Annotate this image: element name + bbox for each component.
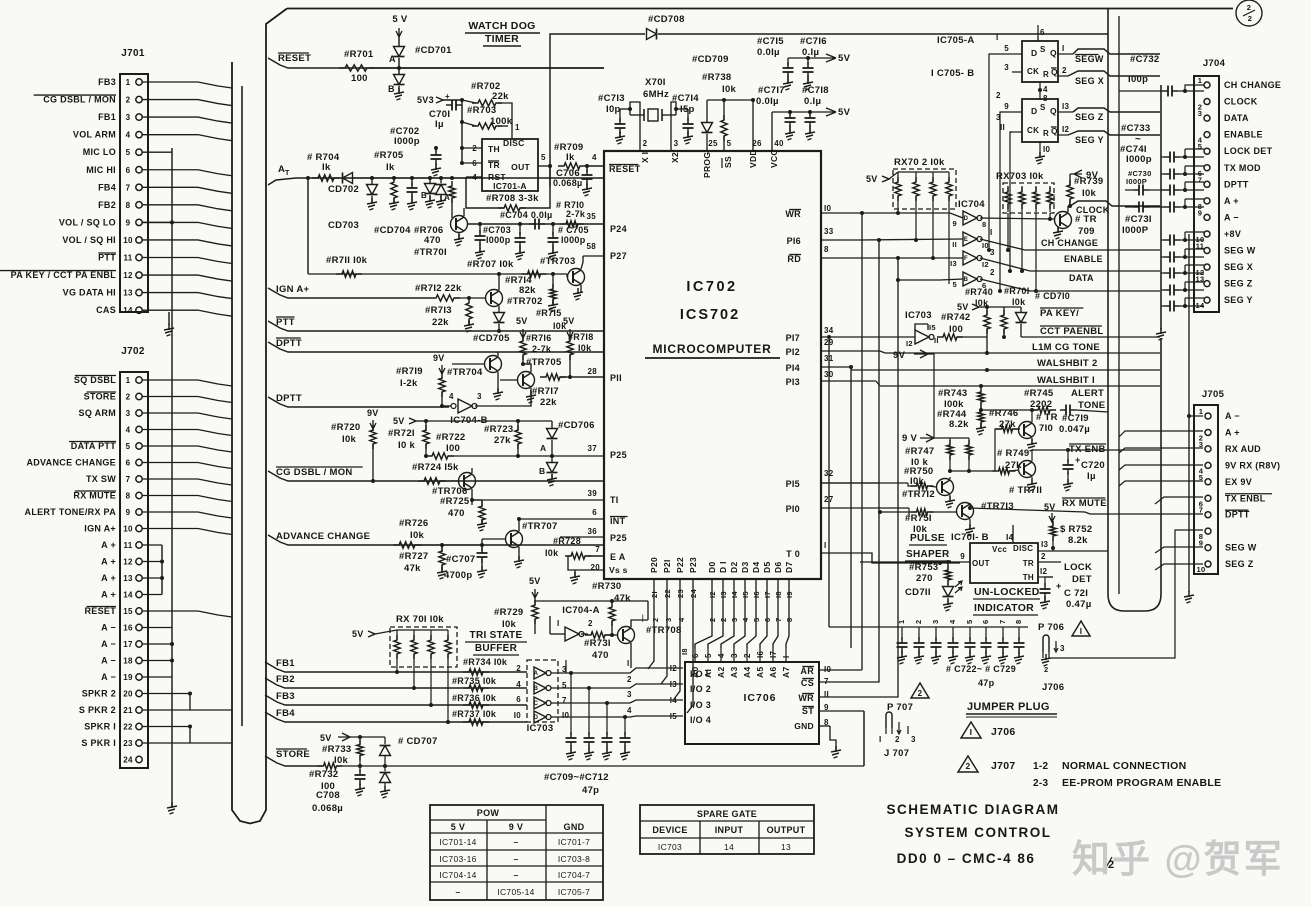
svg-text:5: 5: [1004, 44, 1009, 53]
svg-text:1: 1: [126, 78, 131, 87]
svg-text:A −: A −: [101, 623, 116, 633]
pin VCC: [769, 149, 779, 168]
svg-text:P 706: P 706: [1038, 622, 1064, 633]
svg-text:0.068µ: 0.068µ: [312, 803, 343, 814]
label+wire FB1 net: [265, 658, 527, 674]
svg-text:J706: J706: [1042, 682, 1064, 693]
svg-text:GND: GND: [564, 822, 585, 832]
svg-text:10: 10: [123, 236, 133, 245]
label J706 ref: [991, 726, 1016, 738]
svg-text:J705: J705: [1202, 389, 1225, 400]
svg-text:Ik: Ik: [386, 162, 395, 173]
svg-text:GND: GND: [794, 721, 814, 731]
svg-text:I: I: [1080, 627, 1083, 636]
svg-text:#R73I: #R73I: [584, 638, 611, 649]
svg-text:14: 14: [123, 591, 133, 600]
flag ENABLE: [1064, 254, 1103, 264]
svg-text:F: F: [964, 256, 968, 262]
warning triangle 1a: [1072, 621, 1090, 636]
ground: [167, 802, 177, 814]
svg-text:2: 2: [627, 675, 632, 684]
svg-text:CD702: CD702: [328, 184, 359, 195]
label 9V tr709: [1070, 170, 1099, 181]
pin SS: [722, 156, 733, 168]
svg-text:709: 709: [1078, 226, 1095, 237]
svg-text:A −: A −: [101, 656, 116, 666]
op-amp IC704-B: [440, 390, 531, 426]
capacitor C732 label: [1128, 54, 1160, 85]
svg-text:J 707: J 707: [884, 748, 909, 759]
svg-text:5: 5: [126, 148, 131, 157]
pin ff 3: [1004, 63, 1022, 72]
svg-text:VOL / SQ LO: VOL / SQ LO: [59, 217, 116, 227]
label A −: [101, 639, 116, 649]
pin num 3: [674, 139, 679, 148]
label TRI STATE BUFFER: [465, 630, 527, 655]
svg-text:9V RX (R8V): 9V RX (R8V): [1225, 460, 1280, 470]
capacitor C713: [598, 93, 630, 144]
svg-text:3: 3: [730, 618, 739, 622]
IC IC701-B box: [951, 532, 1038, 583]
svg-text:TRI STATE: TRI STATE: [470, 630, 523, 641]
labels C733 C741: [1120, 123, 1152, 165]
svg-text:I00: I00: [949, 324, 963, 335]
svg-text:A: A: [534, 671, 539, 677]
svg-text:26: 26: [752, 139, 762, 148]
svg-text:SEG X: SEG X: [1075, 76, 1104, 86]
label IC704: [958, 199, 985, 210]
svg-text:0.047µ: 0.047µ: [1059, 424, 1090, 435]
svg-text:X70I: X70I: [645, 77, 666, 88]
svg-text:SPKR 2: SPKR 2: [82, 689, 116, 699]
svg-text:ADVANCE CHANGE: ADVANCE CHANGE: [276, 531, 370, 542]
svg-text:B: B: [539, 466, 545, 476]
svg-text:#C7I3: #C7I3: [598, 93, 625, 104]
pin P12: [786, 338, 885, 357]
svg-text:I3: I3: [1062, 102, 1070, 111]
svg-text:P24: P24: [610, 224, 627, 234]
svg-text:4: 4: [677, 617, 686, 622]
svg-text:9: 9: [1198, 208, 1202, 217]
diode CD705: [473, 313, 510, 345]
svg-text:#R720: #R720: [331, 422, 361, 433]
svg-text:TONE: TONE: [1078, 400, 1105, 411]
svg-text:I00p: I00p: [1128, 74, 1148, 85]
pin IC701-A 6: [460, 159, 482, 168]
pin P16: [787, 227, 860, 246]
svg-text:5V3: 5V3: [417, 95, 434, 105]
resistor R738: [702, 72, 737, 150]
svg-text:I2: I2: [1040, 567, 1048, 576]
wire P24 line: [467, 212, 604, 224]
svg-text:I-2k: I-2k: [400, 378, 418, 389]
svg-text:IC704: IC704: [958, 199, 985, 210]
svg-text:47p: 47p: [978, 678, 995, 688]
svg-text:I0: I0: [1043, 145, 1051, 154]
svg-text:9: 9: [1199, 539, 1203, 548]
wire D0-D7 drop to A0-A7: [695, 604, 789, 648]
pin IO3: [670, 696, 711, 710]
svg-text:X2: X2: [670, 152, 680, 163]
transistor TR709: [1040, 206, 1097, 239]
wire r711 r707: [308, 272, 567, 276]
pin RESET 4: [609, 164, 641, 174]
svg-text:#C7I6: #C7I6: [800, 36, 827, 47]
label+wire FB2 net: [265, 674, 527, 690]
svg-text:I3: I3: [1041, 540, 1049, 549]
wire ptt node: [497, 329, 501, 333]
svg-text:IC704-14: IC704-14: [439, 870, 476, 880]
svg-text:#R739: #R739: [1074, 176, 1104, 187]
svg-text:7: 7: [1199, 506, 1203, 515]
svg-text:AR: AR: [800, 666, 814, 676]
pin P27 entry: [583, 242, 604, 256]
label S PKR I: [81, 738, 116, 748]
svg-text:J706: J706: [991, 726, 1016, 738]
svg-text:SS: SS: [723, 156, 733, 168]
pin J701-7: [126, 183, 232, 193]
svg-text:DET: DET: [1072, 574, 1092, 585]
svg-text:3: 3: [664, 618, 673, 622]
wire ic703 out drops: [547, 660, 566, 688]
svg-text:–: –: [513, 854, 518, 864]
svg-text:#R726: #R726: [399, 518, 429, 529]
svg-text:#C703: #C703: [483, 225, 511, 235]
ground: [394, 88, 404, 100]
svg-text:7: 7: [774, 618, 783, 622]
resistor array RX701: [352, 614, 457, 667]
svg-text:SEG W: SEG W: [1225, 543, 1257, 553]
svg-text:4: 4: [126, 131, 131, 140]
svg-text:IC701-7: IC701-7: [558, 837, 590, 847]
transistor TR712: [902, 477, 955, 508]
svg-text:MIC HI: MIC HI: [86, 165, 116, 175]
svg-text:#R734 I0k: #R734 I0k: [463, 657, 508, 667]
svg-text:18: 18: [123, 657, 133, 666]
svg-text:IC705-14: IC705-14: [497, 887, 534, 897]
svg-text:5V: 5V: [320, 733, 332, 743]
svg-text:SEGW: SEGW: [1075, 54, 1104, 64]
pin EA: [588, 545, 626, 562]
svg-text:P22: P22: [675, 557, 685, 573]
svg-text:1: 1: [897, 620, 906, 624]
svg-text:32: 32: [824, 469, 834, 478]
svg-text:A2: A2: [716, 667, 726, 678]
svg-text:CAS: CAS: [96, 305, 116, 315]
resistor R740: [965, 287, 993, 355]
svg-text:0.47µ: 0.47µ: [1066, 599, 1091, 610]
wire ic706 bus loop: [838, 211, 900, 766]
pin J702-3: [126, 409, 232, 419]
svg-text:C720: C720: [1081, 460, 1105, 471]
capacitor C705: [548, 222, 589, 260]
label JUMPER PLUG: [966, 701, 1057, 717]
svg-text:2-7k: 2-7k: [532, 344, 552, 354]
svg-text:1: 1: [1198, 76, 1202, 85]
svg-text:MIC LO: MIC LO: [83, 147, 116, 157]
IC IC705-A box: [1022, 41, 1058, 82]
svg-text:#C7I4: #C7I4: [672, 93, 699, 104]
pin num 5: [727, 139, 732, 148]
svg-text:C: C: [534, 701, 539, 707]
svg-text:IC703-16: IC703-16: [439, 854, 476, 864]
svg-text:D2: D2: [729, 562, 739, 573]
svg-text:I5: I5: [929, 323, 936, 332]
label IGN A+: [84, 524, 116, 534]
IC IC706 box: [685, 662, 819, 744]
label 5V r721: [393, 416, 426, 426]
svg-text:TX ENBL: TX ENBL: [1225, 493, 1266, 503]
capacitor C708: [312, 766, 366, 814]
svg-text:4700p: 4700p: [444, 570, 472, 581]
pin P25b: [560, 527, 627, 543]
wire 5v3 node: [443, 98, 464, 163]
pin ic701b 2: [1038, 552, 1061, 562]
label page 2: [1104, 857, 1114, 871]
connector J701 label: [121, 48, 145, 59]
svg-text:#R701: #R701: [344, 49, 374, 60]
pin J702-4: [126, 426, 232, 436]
label 9V r719: [433, 353, 445, 374]
svg-text:2: 2: [895, 735, 900, 744]
label A +: [101, 557, 116, 567]
svg-text:ALERT: ALERT: [1071, 388, 1104, 399]
svg-text:#C73I: #C73I: [1125, 214, 1152, 225]
svg-text:OUTPUT: OUTPUT: [767, 825, 806, 835]
svg-text:A0: A0: [690, 667, 700, 678]
svg-text:CK: CK: [1027, 67, 1039, 76]
svg-text:OUT: OUT: [972, 559, 990, 568]
svg-text:22: 22: [123, 723, 133, 732]
svg-text:# R749: # R749: [997, 448, 1029, 459]
svg-text:LOCK DET: LOCK DET: [1224, 146, 1273, 156]
pin ff 13: [1058, 102, 1073, 112]
svg-text:#R723: #R723: [484, 424, 514, 435]
svg-text:#C7I5: #C7I5: [757, 36, 784, 47]
svg-text:TX SW: TX SW: [86, 474, 116, 484]
pin ff 5: [1004, 44, 1022, 54]
svg-text:#TR702: #TR702: [507, 296, 543, 307]
pins IC702 bottom P20-P23 D0-D7: [649, 557, 794, 604]
svg-text:8: 8: [1014, 620, 1023, 624]
pin GND: [794, 718, 830, 731]
svg-text:I2: I2: [1062, 125, 1070, 134]
wire j704 bus rail: [1160, 85, 1162, 330]
svg-text:23: 23: [123, 739, 133, 748]
resistor R737: [452, 709, 497, 725]
pin ff 10: [1035, 142, 1051, 164]
diode CD707: [380, 736, 438, 798]
pin J702-16: [123, 624, 172, 633]
svg-text:CH CHANGE: CH CHANGE: [1041, 238, 1098, 248]
svg-text:I0k: I0k: [410, 530, 425, 541]
label ALERT TONE/RX PA: [25, 507, 117, 517]
svg-text:9 V: 9 V: [509, 822, 523, 832]
svg-text:20: 20: [123, 690, 133, 699]
wire jumper link: [863, 711, 865, 766]
svg-text:RESET: RESET: [278, 53, 311, 64]
pin J701-3: [126, 113, 232, 123]
svg-text:SEG Z: SEG Z: [1224, 279, 1253, 289]
pin J702-19: [123, 673, 172, 682]
label PULSE SHAPER: [905, 533, 951, 561]
svg-text:#R708 3-3k: #R708 3-3k: [486, 193, 539, 204]
svg-text:DPTT: DPTT: [276, 338, 302, 349]
svg-text:58: 58: [587, 242, 597, 251]
svg-text:2: 2: [651, 618, 660, 622]
svg-text:STORE: STORE: [84, 392, 116, 402]
svg-text:# C722~ # C729: # C722~ # C729: [946, 664, 1016, 674]
label SQ ARM: [79, 408, 116, 418]
resistor R716: [520, 333, 552, 366]
capacitor C707: [442, 543, 488, 581]
capacitor C706: [553, 164, 593, 188]
svg-text:7: 7: [998, 620, 1007, 624]
resistor R702: [462, 81, 512, 132]
svg-text:FB2: FB2: [98, 200, 116, 210]
label IC705-B: [931, 68, 974, 79]
pin J702-7: [126, 475, 232, 485]
svg-text:E: E: [964, 237, 968, 243]
svg-text:47k: 47k: [404, 563, 421, 574]
svg-text:II: II: [952, 240, 957, 249]
capacitor C717: [756, 85, 796, 140]
svg-text:7: 7: [126, 475, 131, 484]
svg-text:IC706: IC706: [743, 692, 776, 704]
svg-text:#R728: #R728: [553, 536, 581, 546]
resistor R723: [484, 421, 521, 458]
pin ff 2q: [1058, 66, 1068, 76]
wire A+ rail: [161, 545, 163, 595]
svg-text:SEG Y: SEG Y: [1075, 135, 1104, 145]
svg-text:IC704-7: IC704-7: [558, 870, 590, 880]
diode CD702: [328, 173, 466, 196]
pin X1: [640, 152, 650, 163]
svg-text:21: 21: [123, 706, 133, 715]
svg-text:A +: A +: [101, 540, 116, 550]
svg-text:#TR704: #TR704: [447, 367, 483, 378]
svg-text:0.0Iµ: 0.0Iµ: [756, 96, 779, 107]
resistor R747b: [966, 438, 972, 473]
pin J701-4: [126, 131, 232, 141]
svg-text:2: 2: [990, 268, 995, 277]
svg-text:#R7I6: #R7I6: [526, 333, 552, 343]
svg-text:2: 2: [516, 664, 521, 673]
svg-text:SYSTEM CONTROL: SYSTEM CONTROL: [904, 825, 1051, 840]
flag CLOCK: [1070, 201, 1160, 215]
pin J702-10: [123, 525, 232, 535]
svg-text:9: 9: [960, 552, 965, 561]
svg-text:I000p: I000p: [1126, 154, 1152, 165]
svg-text:4: 4: [516, 680, 521, 689]
svg-text:14: 14: [123, 306, 133, 315]
transistor TR701: [414, 216, 468, 259]
label P706: [1038, 622, 1064, 633]
capacitors C733-C741 bank: [1161, 152, 1204, 312]
capacitor C732: [1119, 85, 1204, 97]
svg-text:I0: I0: [824, 204, 832, 213]
svg-text:IC703: IC703: [527, 723, 554, 734]
svg-text:S: S: [1040, 103, 1046, 112]
svg-text:SQ DSBL: SQ DSBL: [74, 375, 116, 385]
svg-text:ST: ST: [802, 706, 814, 716]
svg-text:Vcc: Vcc: [992, 545, 1007, 554]
svg-text:30: 30: [824, 370, 834, 379]
resistor R728: [545, 536, 604, 570]
svg-text:SQ ARM: SQ ARM: [79, 408, 116, 418]
svg-text:TIMER: TIMER: [485, 33, 519, 45]
svg-text:#R7I8: #R7I8: [568, 332, 594, 342]
svg-text:I0k: I0k: [342, 434, 357, 445]
svg-text:11: 11: [123, 254, 132, 263]
resistor R747: [905, 438, 953, 473]
svg-text:5V: 5V: [563, 316, 575, 326]
svg-text:I000P: I000P: [1126, 177, 1147, 186]
svg-text:RX AUD: RX AUD: [1225, 444, 1261, 454]
svg-text:+: +: [1056, 581, 1062, 591]
pin P25a: [588, 444, 627, 460]
flag SEGZ: [1073, 108, 1160, 122]
wire 5V feed: [396, 28, 402, 46]
resistor R706: [414, 176, 455, 246]
svg-text:22k: 22k: [432, 317, 449, 328]
svg-text:9: 9: [953, 219, 957, 228]
svg-text:3: 3: [1060, 644, 1065, 653]
svg-text:5V: 5V: [393, 416, 405, 426]
diode CD704-A: [436, 176, 451, 208]
resistor R704: [307, 152, 340, 181]
svg-text:RD: RD: [787, 254, 801, 264]
svg-text:D: D: [534, 715, 539, 721]
pin INT: [519, 508, 628, 526]
page border frame: [266, 9, 1233, 451]
wire long bottom1: [337, 765, 864, 767]
svg-text:2: 2: [1247, 3, 1251, 12]
svg-text:CD7II: CD7II: [905, 587, 931, 598]
svg-text:I000p: I000p: [394, 136, 420, 147]
svg-text:I0k: I0k: [1082, 188, 1097, 199]
svg-text:INDICATOR: INDICATOR: [974, 602, 1034, 614]
pin J702-14: [123, 591, 162, 600]
capacitor C703: [475, 222, 512, 259]
svg-text:SHAPER: SHAPER: [906, 549, 950, 560]
svg-text:TX MOD: TX MOD: [1224, 163, 1261, 173]
pin ff 11: [1000, 123, 1022, 132]
label A −: [101, 672, 116, 682]
pin J701-12: [123, 271, 232, 281]
svg-text:PA KEY/: PA KEY/: [1040, 308, 1079, 319]
svg-text:ICS702: ICS702: [680, 307, 740, 323]
svg-text:#R722: #R722: [436, 432, 466, 443]
svg-text:–: –: [455, 887, 460, 897]
pin J702-13: [123, 574, 164, 583]
svg-text:#CD705: #CD705: [473, 333, 510, 344]
svg-text:Iµ: Iµ: [435, 119, 444, 130]
pin P10: [786, 495, 1090, 516]
transistor TR702: [486, 274, 543, 307]
label VOL / SQ HI: [62, 235, 116, 245]
svg-text:+8V: +8V: [1224, 229, 1241, 239]
svg-text:22k: 22k: [492, 91, 509, 102]
label FB2: [98, 200, 116, 210]
svg-text:6: 6: [981, 620, 990, 624]
svg-text:RESET: RESET: [609, 164, 641, 174]
resistor R752: [1050, 521, 1093, 551]
pin J702-6: [126, 459, 232, 469]
resistor R746: [989, 408, 1020, 471]
svg-text:A: A: [389, 54, 396, 64]
svg-text:4: 4: [741, 617, 750, 622]
